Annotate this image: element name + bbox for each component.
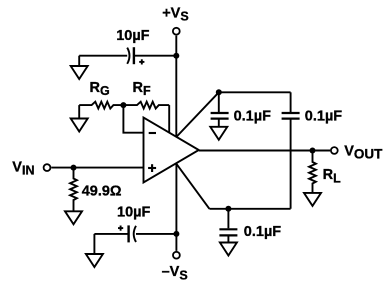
wire supply pin to bottom decoupling rail (diagonal) — [176, 164, 209, 209]
svg-text:10µF: 10µF — [116, 28, 149, 44]
resistor RF — [123, 102, 169, 109]
svg-text:RF: RF — [133, 80, 151, 98]
terminal +VS — [173, 28, 180, 35]
resistor RG — [79, 102, 123, 109]
wire top 10uF cap row left segment — [79, 55, 127, 57]
svg-text:10µF: 10µF — [117, 205, 150, 221]
ground G6 (C3) — [220, 243, 237, 256]
wire bottom rail — [209, 208, 290, 210]
wire top 10uF cap row right segment — [135, 55, 176, 57]
wire +VS supply vertical to op-amp top pin — [175, 36, 177, 137]
terminal VIN — [44, 164, 51, 171]
pin plus symbol — [148, 164, 156, 172]
wire RF to feedback pin on op-amp top edge — [168, 105, 170, 133]
capacitor C1 0.1uF — [211, 113, 229, 119]
svg-text:VIN: VIN — [12, 160, 34, 178]
pin minus symbol — [149, 132, 156, 134]
wire cap C1 stem — [218, 92, 220, 112]
ground G2 (RG) — [71, 119, 88, 132]
wire C1 to ground — [218, 119, 220, 127]
ground G5 (C1) — [210, 127, 227, 140]
wire VIN to non-inverting input — [51, 167, 143, 169]
ground G1 (top 10uF) — [71, 56, 88, 79]
terminal VOUT — [331, 147, 338, 154]
svg-text:0.1µF: 0.1µF — [305, 108, 343, 124]
wire bottom 10uF row right segment — [136, 233, 176, 235]
wire supply pin to top decoupling node (diagonal) — [176, 92, 219, 137]
junction node RG/RF — [120, 102, 126, 108]
capacitor 10uF top (polarized) — [127, 47, 144, 64]
capacitor 10uF bottom (polarized) — [118, 225, 136, 242]
wire output — [199, 150, 330, 152]
terminal -VS — [173, 252, 180, 259]
ground G3 (49.9) — [65, 211, 82, 224]
wire cap C2 vertical upper — [290, 92, 292, 112]
svg-text:RG: RG — [90, 80, 110, 98]
wire cap C2 vertical lower (crosses output wire) — [290, 119, 292, 209]
resistor 49.9 ohm — [70, 168, 77, 212]
capacitor C2 0.1uF — [282, 113, 300, 119]
svg-text:+VS: +VS — [162, 5, 188, 23]
ground G4 (bottom 10uF) — [86, 234, 103, 267]
capacitor C3 0.1uF — [219, 229, 237, 235]
wire -VS pin vertical — [175, 164, 177, 251]
svg-text:49.9Ω: 49.9Ω — [82, 184, 122, 200]
wire C3 to ground — [227, 235, 229, 242]
junction node VOUT/RL — [310, 148, 316, 154]
wire cap C3 stem — [227, 209, 229, 229]
svg-text:0.1µF: 0.1µF — [244, 224, 282, 240]
junction node VIN/49.9 — [71, 165, 77, 171]
svg-text:0.1µF: 0.1µF — [234, 108, 272, 124]
junction node bottom decoupling — [225, 206, 231, 212]
svg-text:RL: RL — [323, 167, 341, 185]
junction node -VS/bottom cap — [173, 231, 179, 237]
op-amp U1 — [144, 118, 199, 183]
ground G7 (RL) — [304, 193, 321, 206]
svg-text:–VS: –VS — [162, 264, 188, 282]
wire bottom 10uF row left segment — [94, 233, 128, 235]
wire top rail — [219, 91, 291, 93]
wire inverting input from RG/RF node — [123, 105, 143, 133]
junction node top decoupling — [216, 89, 222, 95]
svg-text:VOUT: VOUT — [344, 144, 383, 162]
wire RG left drop to ground — [78, 105, 80, 118]
junction node supply/top cap — [173, 53, 179, 59]
resistor RL — [309, 151, 316, 193]
